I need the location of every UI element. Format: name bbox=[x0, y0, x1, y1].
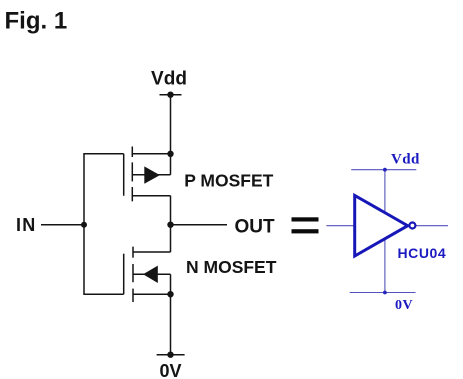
svg-text:HCU04: HCU04 bbox=[398, 245, 447, 261]
svg-text:N MOSFET: N MOSFET bbox=[186, 257, 277, 277]
junction dot at IN on gate bus bbox=[81, 222, 87, 228]
transistor Q1 P MOSFET: bulk arrow (points right) bbox=[144, 166, 160, 183]
wire: OUT lead bbox=[171, 224, 228, 226]
node Vdd: supply tick bbox=[160, 94, 182, 96]
junction dot at N source / bulk tie bbox=[167, 291, 173, 297]
transistor Q1 P MOSFET: drain line bbox=[132, 195, 171, 197]
wire: gate bus (IN) bbox=[84, 154, 124, 294]
svg-text:Vdd: Vdd bbox=[391, 152, 420, 168]
transistor Q1 P MOSFET: channel dashes bbox=[131, 147, 133, 158]
svg-text:OUT: OUT bbox=[235, 216, 276, 237]
junction dot at P source / Vdd bbox=[167, 151, 173, 157]
svg-text:P MOSFET: P MOSFET bbox=[184, 171, 273, 191]
transistor Q2 N MOSFET: drain line bbox=[133, 251, 171, 253]
wire: P drain down to OUT node, N drain up bbox=[170, 196, 172, 252]
transistor Q1 P MOSFET: gate plate bbox=[123, 154, 125, 196]
wire: 0V rail (bottom) bbox=[350, 292, 416, 294]
svg-text:Fig. 1: Fig. 1 bbox=[5, 7, 68, 34]
transistor Q2 N MOSFET: bulk-source tie vertical bbox=[170, 274, 172, 294]
wire: inverter input lead bbox=[326, 225, 354, 227]
svg-text:IN: IN bbox=[16, 215, 36, 235]
transistor Q1 P MOSFET: bulk line bbox=[132, 174, 170, 176]
junction dot at 0V tick bbox=[167, 352, 173, 358]
inverter U1 triangle bbox=[355, 195, 408, 256]
svg-text:0V: 0V bbox=[395, 298, 413, 313]
wire: IN lead bbox=[41, 224, 84, 226]
transistor Q2 N MOSFET: bulk arrow (points left) bbox=[143, 266, 158, 283]
equivalence sign = bbox=[292, 217, 319, 233]
wire: Vdd rail (top) bbox=[351, 169, 416, 171]
svg-text:0V: 0V bbox=[159, 361, 181, 379]
transistor Q2 N MOSFET: gate plate bbox=[123, 254, 125, 295]
junction dot on 0V rail bbox=[383, 291, 387, 295]
inverter U1 output bubble bbox=[409, 223, 415, 229]
transistor Q1 P MOSFET: bulk-source tie vertical bbox=[170, 154, 172, 175]
junction dot on Vdd rail bbox=[383, 168, 387, 172]
transistor Q2 N MOSFET: source line bbox=[133, 293, 171, 295]
transistor Q2 N MOSFET: channel dashes bbox=[132, 247, 134, 258]
wire: N source down to 0V tick bbox=[170, 294, 172, 355]
wire: Vdd rail down to P MOSFET source bbox=[170, 95, 172, 154]
junction dot at Vdd tick bbox=[167, 92, 173, 98]
junction dot at OUT node bbox=[167, 222, 173, 228]
wire: Vdd vertical rail through inverter bbox=[384, 170, 386, 293]
node 0V: ground tick bbox=[157, 354, 185, 356]
wire: inverter output lead bbox=[416, 225, 448, 227]
svg-text:Vdd: Vdd bbox=[151, 69, 187, 90]
transistor Q1 P MOSFET: source line bbox=[132, 153, 171, 155]
transistor Q2 N MOSFET: bulk line bbox=[133, 273, 171, 275]
